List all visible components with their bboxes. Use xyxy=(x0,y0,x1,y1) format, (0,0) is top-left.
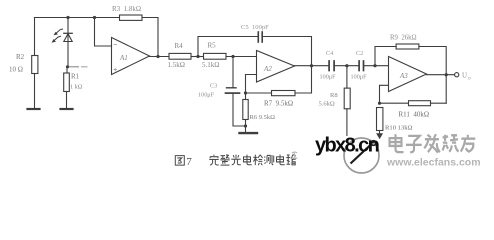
svg-text:100μF: 100μF xyxy=(198,92,215,99)
arrow negative supply xyxy=(376,133,383,139)
resistor R1 xyxy=(64,67,70,108)
wire top rail xyxy=(35,17,120,19)
svg-text:U: U xyxy=(462,72,467,80)
svg-text:5.6kΩ: 5.6kΩ xyxy=(319,101,335,108)
svg-text:R5: R5 xyxy=(208,42,217,50)
node A3 output xyxy=(445,73,448,76)
wire A2 output xyxy=(295,65,329,67)
wire R3 right to A1 output xyxy=(142,18,158,57)
op-amp A3 xyxy=(389,57,427,92)
svg-text:C5 100pF: C5 100pF xyxy=(241,24,269,31)
capacitor C4 xyxy=(329,61,359,71)
capacitor C3 shunt xyxy=(226,57,246,127)
resistor R5 xyxy=(204,53,257,59)
ground (R6/C3) xyxy=(240,132,258,134)
watermark ybx8.cn logo xyxy=(315,135,379,174)
op-amp input polarity marks xyxy=(114,45,118,72)
op-amp A1 xyxy=(112,38,150,75)
svg-text:1.5kΩ: 1.5kΩ xyxy=(168,61,185,69)
svg-text:10 Ω: 10 Ω xyxy=(9,66,23,74)
svg-text:R9 26kΩ: R9 26kΩ xyxy=(390,35,417,42)
svg-text:A3: A3 xyxy=(399,72,408,80)
svg-text:C2: C2 xyxy=(356,50,363,57)
resistor R3 xyxy=(120,15,143,20)
ground (R2) xyxy=(28,108,40,110)
op-amp A2 xyxy=(257,51,295,83)
node R6 ground xyxy=(244,124,247,127)
svg-text:R3 1.8kΩ: R3 1.8kΩ xyxy=(112,5,141,13)
svg-text:R6 9.5kΩ: R6 9.5kΩ xyxy=(250,114,276,121)
svg-text:C3: C3 xyxy=(210,83,217,90)
photodiode VD xyxy=(64,18,72,67)
wire faded to A1 inverting input xyxy=(70,66,88,68)
svg-text:R10 13kΩ: R10 13kΩ xyxy=(385,125,413,132)
node (PD / R1 junction) xyxy=(66,65,69,68)
resistor R9 xyxy=(396,44,419,49)
resistor R2 xyxy=(32,18,38,109)
node R4/R5 xyxy=(196,55,199,58)
capacitor C5 xyxy=(258,32,262,42)
ground (R1) xyxy=(61,108,73,110)
resistor R10 xyxy=(377,108,383,134)
wire A2 inverting input xyxy=(246,75,257,94)
wire R9 right down to output xyxy=(419,47,446,104)
node A2 output xyxy=(310,64,313,67)
svg-text:R4: R4 xyxy=(175,42,184,50)
wire A3 output xyxy=(427,74,455,76)
wire feedback C5 loop xyxy=(198,37,258,57)
caption 图7 完整光电检测电路 (drawn glyphs) xyxy=(175,155,295,168)
node rail/photodiode xyxy=(66,16,69,19)
svg-text:R11 40kΩ: R11 40kΩ xyxy=(399,111,430,119)
node A3 input / R9 xyxy=(373,64,376,67)
node R5/C3 xyxy=(231,55,234,58)
svg-text:A2: A2 xyxy=(263,65,272,73)
resistor R11 xyxy=(380,101,447,106)
svg-text:C4: C4 xyxy=(326,50,333,57)
svg-text:www.elecfans.com: www.elecfans.com xyxy=(386,157,481,169)
svg-text:o: o xyxy=(468,76,471,82)
wire R9 feedback xyxy=(375,47,396,66)
wire rail to A1 noninverting input xyxy=(95,18,112,47)
svg-text:100μF: 100μF xyxy=(351,74,368,81)
wire A1 output xyxy=(150,56,170,58)
resistor R6 xyxy=(243,93,248,132)
resistor R7 xyxy=(246,66,312,96)
svg-text:ybx8.cn: ybx8.cn xyxy=(315,135,379,157)
svg-text:1 kΩ: 1 kΩ xyxy=(70,84,83,91)
node rail/A1 input xyxy=(93,16,96,19)
svg-text:5.1kΩ: 5.1kΩ xyxy=(202,61,219,69)
resistor R4 xyxy=(169,53,204,59)
node C4/C2/R8 xyxy=(345,64,348,67)
light arrows xyxy=(52,29,63,43)
wire A3 inverting input xyxy=(380,85,389,103)
node A1 output xyxy=(156,55,159,58)
node R10/R11 xyxy=(378,102,381,105)
svg-text:R1: R1 xyxy=(71,73,80,81)
terminal Uo xyxy=(455,73,459,77)
svg-text:R2: R2 xyxy=(16,53,25,61)
capacitor C2 xyxy=(359,61,388,71)
svg-text:R8: R8 xyxy=(330,92,338,99)
wire C5 to output vertical xyxy=(263,37,312,66)
watermark 电子发烧友 (gray brush glyphs) xyxy=(390,134,476,152)
watermark stray glyph xyxy=(292,152,298,158)
node R6/R7 xyxy=(244,91,247,94)
resistor R8 xyxy=(344,66,350,136)
svg-text:A1: A1 xyxy=(119,54,128,62)
svg-text:7: 7 xyxy=(186,156,192,168)
svg-text:100μF: 100μF xyxy=(320,74,337,81)
svg-text:R7 9.5kΩ: R7 9.5kΩ xyxy=(264,100,293,108)
